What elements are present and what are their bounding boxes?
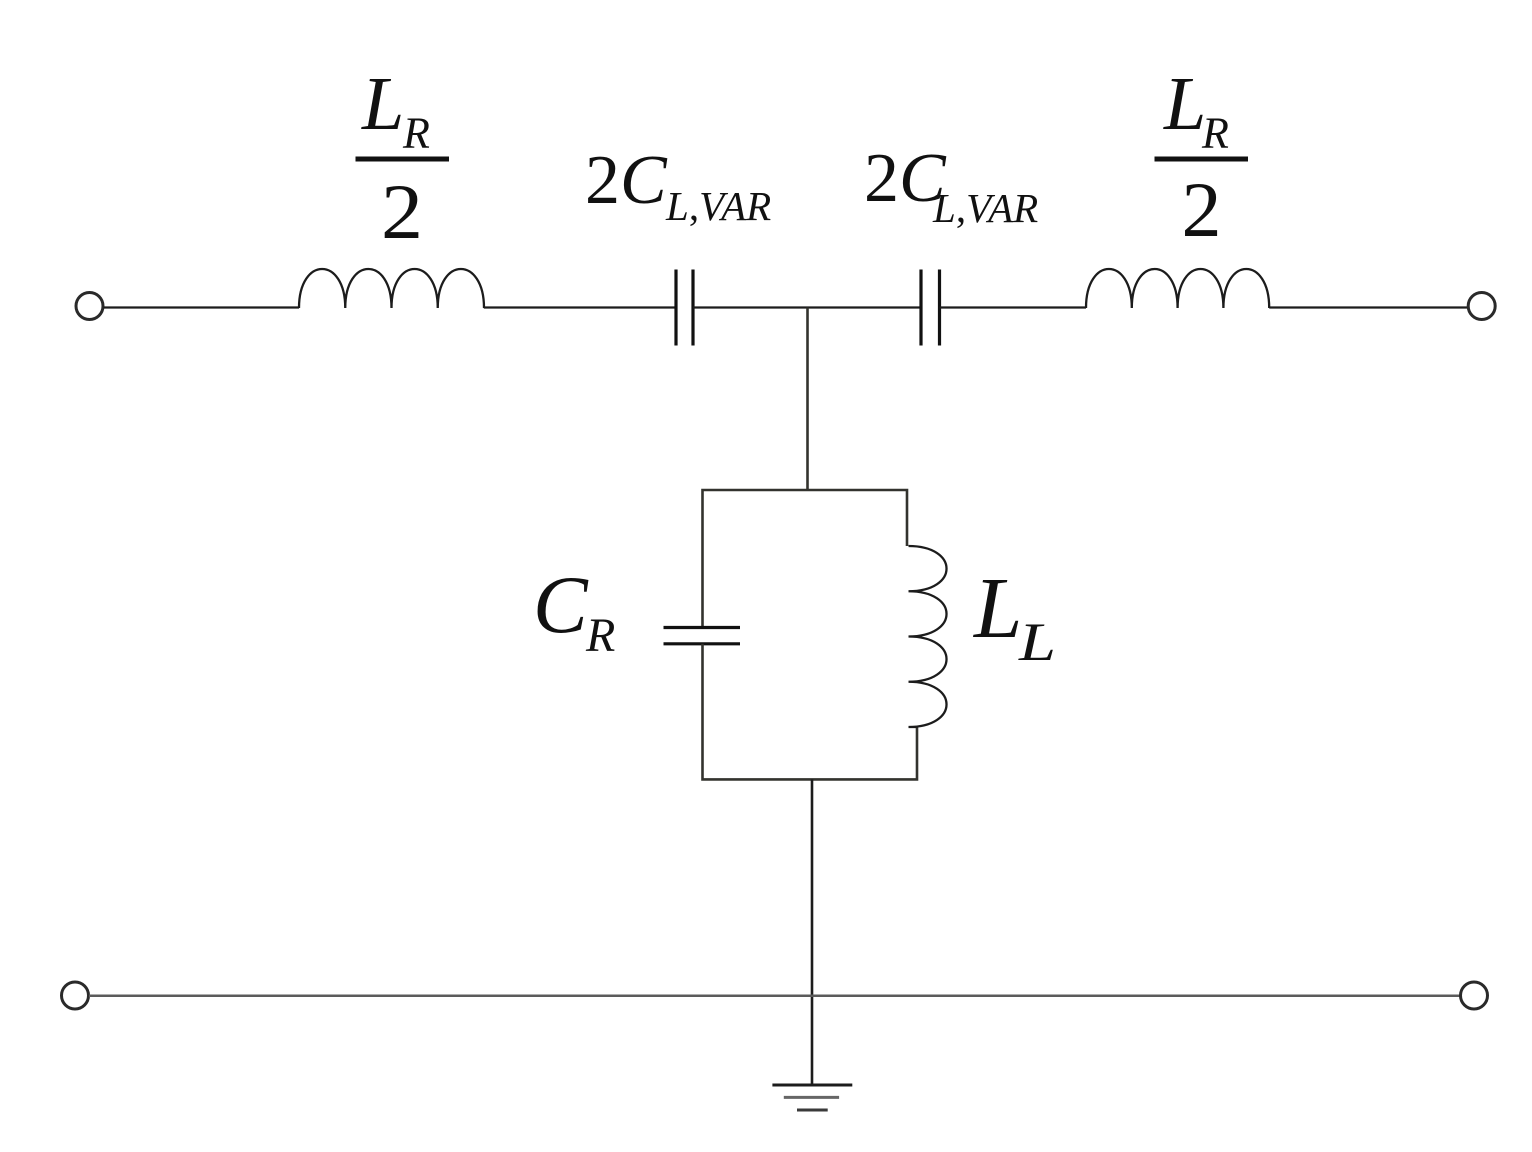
inductor LL [909, 546, 947, 727]
port terminal P1 (top left) [76, 293, 103, 320]
wire (tank top edge) [703, 490, 908, 628]
capacitor 2CL,VAR right [921, 270, 940, 346]
node stem wire [806, 308, 809, 491]
label LL [972, 559, 1056, 672]
inductor LR/2 left [299, 269, 484, 308]
wire [484, 306, 676, 308]
svg-text:2C: 2C [585, 142, 668, 219]
inductor LR/2 right [1086, 269, 1269, 308]
label 2CL,VAR left [585, 142, 771, 229]
port terminal P3 (bottom left) [62, 982, 89, 1009]
wire [940, 306, 1087, 308]
label 2CL,VAR right [864, 140, 1038, 231]
wire (tank bottom edge) [703, 644, 918, 780]
wire (ground stem) [811, 779, 814, 1085]
wire (bottom rail) [89, 995, 1460, 998]
svg-text:L: L [361, 62, 404, 146]
label LR/2 right (fraction) [1155, 62, 1249, 253]
svg-text:C: C [533, 559, 589, 650]
ground [772, 1085, 852, 1110]
svg-text:L: L [1018, 612, 1056, 672]
capacitor CR [664, 628, 741, 644]
svg-text:L: L [1163, 62, 1206, 146]
port terminal P4 (bottom right) [1461, 982, 1488, 1009]
wire [1269, 306, 1468, 308]
label LR/2 left (fraction) [356, 62, 450, 255]
svg-text:L,VAR: L,VAR [932, 185, 1038, 231]
svg-text:L,VAR: L,VAR [665, 183, 771, 229]
wire [693, 306, 921, 308]
wire [104, 306, 300, 308]
svg-text:R: R [585, 609, 615, 662]
svg-text:2: 2 [381, 168, 423, 255]
svg-text:L: L [972, 559, 1022, 656]
label CR [533, 559, 615, 662]
svg-text:2: 2 [1182, 166, 1222, 253]
port terminal P2 (top right) [1468, 293, 1495, 320]
svg-text:R: R [1201, 109, 1229, 158]
capacitor 2CL,VAR left [676, 270, 693, 346]
svg-text:R: R [402, 109, 430, 158]
